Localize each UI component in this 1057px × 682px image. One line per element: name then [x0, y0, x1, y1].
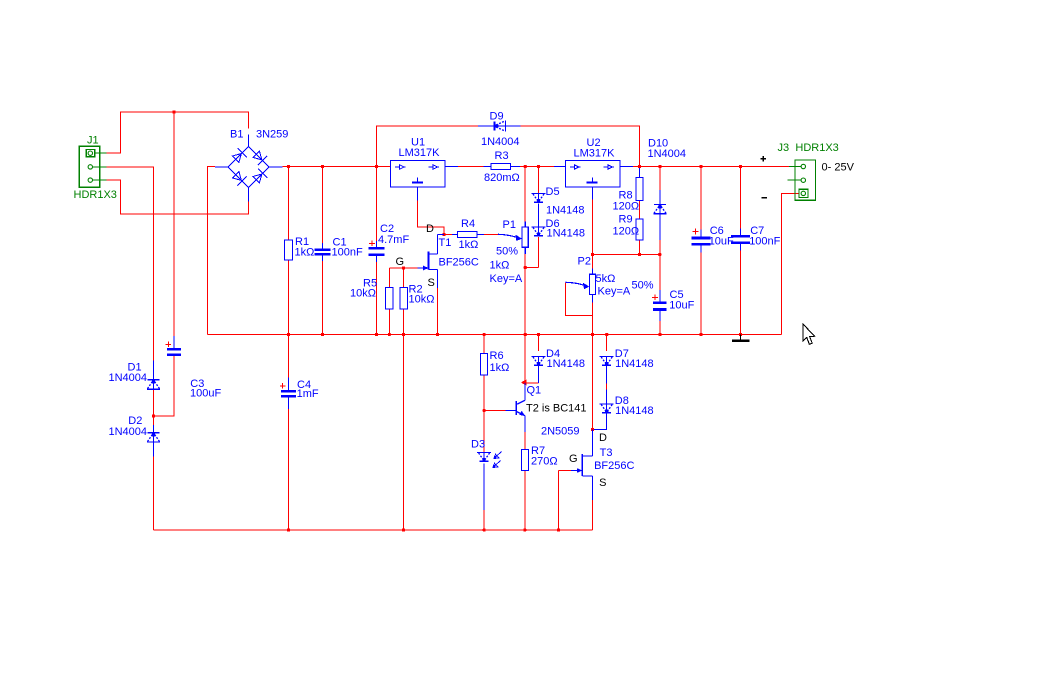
svg-text:LM317K: LM317K	[574, 148, 616, 160]
resistor R8	[613, 178, 644, 213]
svg-text:1N4148: 1N4148	[547, 358, 586, 370]
svg-text:1N4004: 1N4004	[648, 148, 687, 160]
wire C3 bottom L to D1-D2 node	[154, 356, 175, 416]
svg-text:10kΩ: 10kΩ	[409, 294, 435, 306]
wire R6 branch	[483, 335, 485, 354]
wire Q1 collector node to D4	[525, 382, 538, 384]
diode D7	[600, 348, 654, 370]
capacitor C5	[652, 289, 694, 312]
junctions on P2 horizontal	[638, 253, 641, 256]
op-amp U1 (LM317K regulator)	[391, 137, 459, 201]
junction node G	[402, 266, 405, 269]
svg-text:D: D	[426, 223, 434, 235]
wire Q1 emitter to R7	[524, 432, 526, 450]
capacitor C3	[166, 342, 222, 400]
svg-text:J1: J1	[87, 135, 99, 147]
svg-text:S: S	[599, 477, 606, 489]
svg-text:D5: D5	[546, 186, 560, 198]
resistor R2	[400, 284, 435, 309]
svg-text:10uF: 10uF	[669, 300, 694, 312]
svg-text:P2: P2	[578, 255, 591, 267]
resistor R4	[452, 218, 484, 251]
junction node D1 D2 C3	[152, 414, 155, 417]
svg-text:1N4148: 1N4148	[546, 205, 585, 217]
wire C2 branch	[376, 167, 378, 242]
svg-text:S: S	[428, 277, 435, 289]
wire node G horizontal	[389, 267, 417, 269]
capacitor C4	[280, 379, 319, 400]
transistor Q1 (BJT 2N5059)	[506, 383, 587, 438]
wire D10 branch	[659, 167, 661, 191]
svg-text:120Ω: 120Ω	[613, 226, 640, 238]
svg-text:1N4004: 1N4004	[481, 136, 520, 148]
wire mid rail	[208, 334, 782, 336]
wire U2 adj down to P2	[592, 200, 594, 269]
bridge diode bottom-left	[233, 172, 242, 181]
svg-text:T3: T3	[600, 447, 613, 459]
svg-text:J3: J3	[778, 142, 790, 154]
wire P2 wiper loop	[566, 283, 593, 316]
capacitor C6	[691, 225, 734, 248]
svg-text:1mF: 1mF	[297, 388, 319, 400]
junction Q1 base node	[482, 409, 485, 412]
svg-text:R4: R4	[461, 218, 475, 230]
svg-text:HDR1X3: HDR1X3	[795, 142, 838, 154]
svg-text:B1: B1	[230, 128, 243, 140]
wire P1 top branch	[524, 167, 526, 222]
svg-text:1N4148: 1N4148	[615, 405, 654, 417]
transistor T1 (JFET BF256C)	[396, 223, 479, 289]
svg-text:R9: R9	[619, 214, 633, 226]
svg-text:Key=A: Key=A	[598, 286, 631, 298]
svg-text:1N4004: 1N4004	[109, 426, 148, 438]
wire D9 bypass loop	[377, 126, 479, 167]
svg-text:5kΩ: 5kΩ	[596, 273, 616, 285]
svg-text:BF256C: BF256C	[439, 257, 479, 269]
bridge diode bottom-right	[253, 174, 262, 183]
wire mid rail right end up to J3 pin3	[782, 194, 800, 335]
wire T1 source to mid rail	[437, 288, 439, 335]
diode D6	[532, 218, 586, 240]
svg-text:T1: T1	[439, 237, 452, 249]
wire P2 bottom through mid rail to node D	[592, 295, 594, 430]
potentiometer P2	[566, 255, 654, 302]
svg-text:HDR1X3: HDR1X3	[74, 189, 117, 201]
svg-text:Q1: Q1	[527, 385, 542, 397]
diode D5	[532, 186, 585, 217]
wire C6 branch	[700, 167, 702, 230]
wire P1 node down to Q1 collector node	[524, 268, 526, 383]
svg-text:1kΩ: 1kΩ	[490, 362, 510, 374]
svg-text:1N4148: 1N4148	[615, 358, 654, 370]
wire D4 branch	[538, 335, 540, 352]
junction P1 bottom	[524, 266, 527, 269]
bridge diode top-left	[233, 154, 242, 163]
svg-text:1kΩ: 1kΩ	[459, 239, 479, 251]
op-amp U2 (LM317K regulator)	[554, 137, 633, 200]
wire D6 bottom	[538, 237, 540, 268]
svg-text:R3: R3	[495, 150, 509, 162]
diode D4	[532, 348, 586, 370]
wire C4 branch mid rail to bottom rail	[288, 335, 290, 378]
wire T3 gate to bottom rail	[559, 471, 572, 531]
wire J1 pin3 down and right to bridge bottom	[106, 180, 248, 214]
arrowhead at Q1 collector node	[521, 380, 527, 386]
wire P2 top horizontal to C5 branch	[593, 254, 660, 256]
capacitor C2	[369, 223, 410, 255]
wire C7 branch	[740, 167, 742, 229]
svg-text:100nF: 100nF	[749, 236, 780, 248]
svg-text:1N4148: 1N4148	[547, 228, 586, 240]
capacitor C7	[731, 225, 781, 248]
wire R2 branch	[403, 268, 405, 335]
svg-text:G: G	[569, 453, 578, 465]
resistor R5	[350, 278, 393, 309]
node + output positive	[761, 158, 767, 160]
resistor R9	[613, 214, 644, 241]
wire R7 to bottom rail	[524, 471, 526, 531]
wire J1 pin1 to top rail to bridge top	[106, 112, 248, 153]
wire main output net y=167	[283, 166, 391, 168]
diode D10 (zener)	[648, 138, 687, 214]
resistor R3	[484, 150, 521, 184]
wire R1 branch	[288, 167, 290, 335]
wire C3 branch from top rail down to C3	[173, 112, 175, 336]
svg-text:820mΩ: 820mΩ	[484, 172, 520, 184]
diode D1	[109, 361, 161, 390]
svg-text:P1: P1	[503, 219, 516, 231]
svg-text:D: D	[599, 432, 607, 444]
svg-text:1kΩ: 1kΩ	[490, 260, 510, 272]
svg-text:10kΩ: 10kΩ	[350, 288, 376, 300]
svg-text:3N259: 3N259	[256, 128, 288, 140]
wire D2 bottom to bottom rail	[153, 443, 155, 531]
transistor T3 (JFET BF256C)	[569, 430, 635, 501]
wire R4 to P1 wiper	[484, 234, 498, 236]
wire R5 branch	[388, 268, 390, 335]
svg-text:50%: 50%	[496, 245, 518, 257]
wire D3 branch	[483, 411, 485, 453]
svg-text:D3: D3	[471, 439, 485, 451]
wire C5 branch	[659, 255, 661, 291]
junction dots on mid rail	[287, 333, 290, 336]
capacitor C1	[315, 237, 363, 259]
diode D2	[109, 415, 161, 457]
node - output negative	[762, 197, 768, 199]
wire C1 branch	[322, 167, 324, 244]
wire J1 pin2 down to D1	[106, 167, 153, 361]
wire D5-D6 link	[538, 204, 540, 228]
resistor R6	[481, 350, 510, 375]
junction dots on bottom rail	[287, 528, 290, 531]
diode D8	[600, 395, 654, 417]
wire P1 bottom to D6 bottom	[524, 247, 526, 254]
wire R8 R9 branch	[639, 167, 641, 178]
svg-text:2N5059: 2N5059	[541, 426, 580, 438]
wire U1 adj to T1 drain node	[418, 201, 445, 235]
svg-text:4.7mF: 4.7mF	[378, 234, 409, 246]
junction top rail / C3 branch	[172, 110, 175, 113]
ground symbol	[732, 335, 750, 341]
diode D3 (LED)	[471, 439, 502, 468]
svg-text:R6: R6	[490, 350, 504, 362]
resistor R1	[285, 236, 315, 260]
svg-text:100uF: 100uF	[190, 388, 221, 400]
wire Q1 base	[484, 410, 505, 412]
svg-text:LM317K: LM317K	[399, 147, 441, 159]
wire T1 drain to R4	[444, 234, 452, 236]
diode D9	[478, 111, 521, 149]
svg-text:100nF: 100nF	[332, 247, 363, 259]
bridge diode top-right	[253, 151, 262, 160]
wire main net to J3 pin1	[741, 166, 790, 168]
wire bridge left terminal down to mid rail	[208, 167, 216, 335]
wire D8 bottom to node D	[593, 413, 607, 430]
junction dots on main output net	[287, 165, 290, 168]
svg-text:120Ω: 120Ω	[613, 200, 640, 212]
svg-text:10uF: 10uF	[709, 236, 734, 248]
svg-text:0- 25V: 0- 25V	[822, 161, 855, 173]
wire D1 bottom / D2 top node	[153, 389, 155, 433]
bridge rectifier B1	[215, 128, 288, 201]
wire R6 to Q1 base node	[483, 375, 485, 411]
svg-text:G: G	[396, 256, 405, 268]
resistor R7	[521, 445, 557, 470]
wire D7 D8 branch	[606, 335, 608, 352]
potentiometer P1	[490, 219, 529, 285]
svg-text:1N4004: 1N4004	[109, 372, 148, 384]
svg-text:1kΩ: 1kΩ	[295, 247, 315, 259]
svg-text:T2 is BC141: T2 is BC141	[526, 403, 587, 415]
junction node D	[591, 428, 594, 431]
wire D5 D6 branch top	[538, 167, 540, 194]
connector J3	[778, 142, 855, 200]
connector J1	[74, 135, 117, 202]
svg-text:BF256C: BF256C	[594, 460, 634, 472]
svg-text:Key=A: Key=A	[490, 273, 523, 285]
wire R2 extension mid rail to bottom rail	[403, 335, 405, 531]
wire bottom rail	[154, 529, 593, 531]
svg-text:50%: 50%	[632, 279, 654, 291]
svg-text:270Ω: 270Ω	[531, 456, 558, 468]
wire T3 source to bottom rail	[592, 500, 594, 530]
mouse cursor	[803, 324, 815, 344]
svg-text:D9: D9	[490, 111, 504, 123]
junction node T1 drain	[442, 233, 445, 236]
